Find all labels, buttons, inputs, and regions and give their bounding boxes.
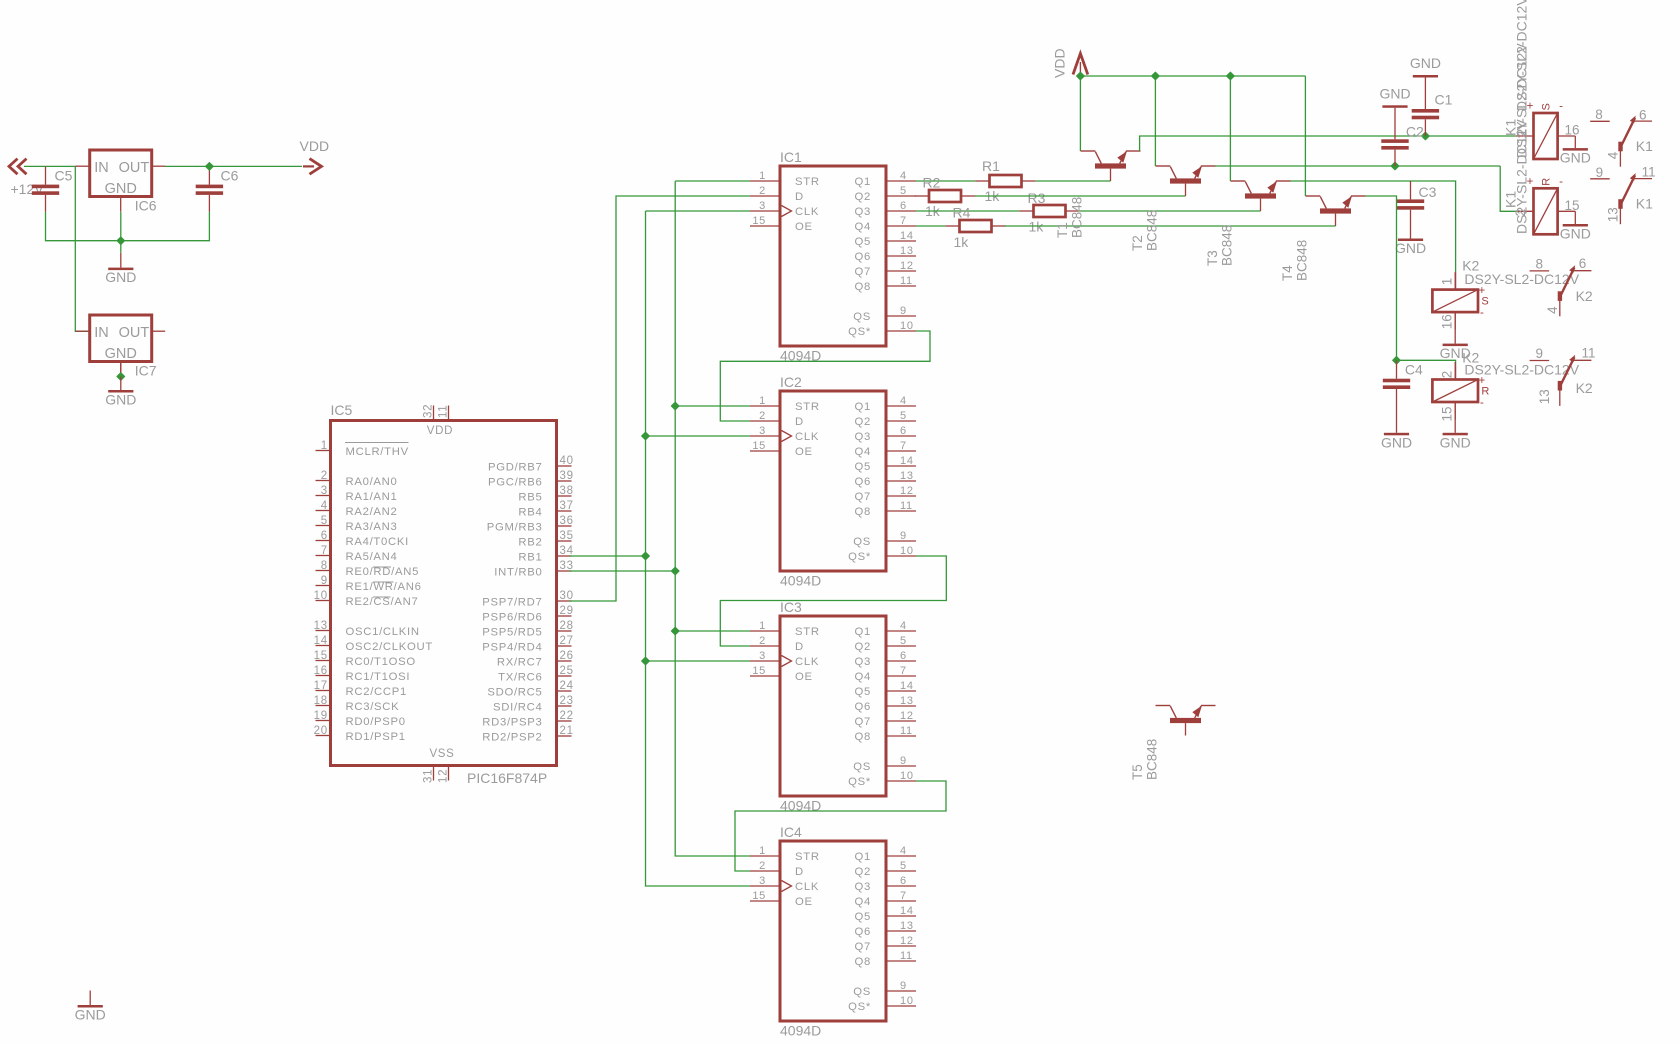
svg-text:R: R [1481,386,1489,398]
svg-text:7: 7 [321,545,328,557]
svg-text:9: 9 [900,980,907,992]
svg-text:OE: OE [795,221,813,233]
IC7 GND pin lead [120,362,122,377]
capacitor C5 [32,166,59,211]
svg-text:S: S [1481,296,1488,308]
svg-text:14: 14 [900,455,914,467]
svg-text:9: 9 [321,575,328,587]
svg-text:Q3: Q3 [855,206,871,218]
svg-text:6: 6 [321,530,328,542]
junction ground rail [117,237,125,245]
svg-text:11: 11 [437,405,449,418]
relay contact K2 (pins 9/11/13) [1530,355,1592,406]
svg-text:3: 3 [759,425,766,437]
svg-text:7: 7 [900,440,907,452]
svg-text:3: 3 [321,485,328,497]
svg-text:STR: STR [795,176,820,188]
wire K1 set pin16 to gnd [1574,136,1576,148]
wire R2 to T2 base [975,195,1186,197]
svg-text:R3: R3 [1028,190,1046,206]
svg-text:K2: K2 [1576,380,1593,396]
svg-text:PSP7/RD7: PSP7/RD7 [482,597,542,609]
junction VDD T3 [1227,72,1235,80]
ground GND below IC6 [105,253,136,285]
wire T3 emitter to K2 set coil [1290,181,1455,272]
wire VDD to T3 collector [1229,76,1231,181]
svg-text:15: 15 [1565,198,1580,213]
svg-text:19: 19 [314,710,328,722]
svg-text:QS: QS [853,311,871,323]
svg-text:-: - [1480,397,1484,409]
svg-text:9: 9 [1596,165,1604,180]
svg-text:9: 9 [900,305,907,317]
wire net D (IC5 pin30 to IC1 D) [570,196,751,601]
svg-text:Q6: Q6 [855,701,871,713]
svg-text:GND: GND [1560,226,1591,242]
svg-text:OUT: OUT [119,325,150,341]
wire +12V input to IC6 IN [24,165,75,167]
svg-text:RC3/SCK: RC3/SCK [346,701,400,713]
svg-text:Q5: Q5 [855,461,871,473]
svg-text:10: 10 [900,770,914,782]
junction C2 tap [1391,162,1399,170]
svg-text:1: 1 [321,440,328,452]
wire +12V down to IC7 IN [75,166,89,331]
svg-text:2: 2 [759,635,766,647]
svg-text:QS*: QS* [848,551,871,563]
svg-text:18: 18 [314,695,328,707]
wire T2 emitter to K1 reset coil [1215,165,1500,167]
svg-text:IC3: IC3 [780,599,802,615]
junction VDD T1 [1077,72,1085,80]
wire K2 reset pin15 to gnd [1454,402,1456,433]
svg-text:Q8: Q8 [855,506,871,518]
svg-text:C4: C4 [1405,362,1423,378]
IC5 pin numbers [314,404,574,783]
svg-text:38: 38 [560,485,574,497]
svg-text:4: 4 [1545,306,1560,314]
svg-text:SDI/RC4: SDI/RC4 [493,702,542,714]
IC IC1 4094D shift register [750,166,916,346]
wire IC6 OUT to VDD [165,165,302,167]
svg-text:17: 17 [314,680,328,692]
junction CLK IC3 [642,657,650,665]
svg-text:21: 21 [560,725,574,737]
svg-text:Q5: Q5 [855,236,871,248]
ground GND below IC7 [105,377,136,408]
wire IC1 QS* to IC2 D [720,331,930,421]
svg-text:11: 11 [1582,346,1596,361]
svg-text:GND: GND [1379,85,1410,101]
junction C4 tap [1393,356,1401,364]
svg-text:IN: IN [94,325,109,341]
svg-text:6: 6 [900,425,907,437]
svg-text:15: 15 [1439,406,1454,421]
wire T4 emitter to K2 reset coil [1365,196,1396,360]
svg-text:7: 7 [900,215,907,227]
svg-text:5: 5 [900,860,907,872]
wire IC1 Q4 to R4 [916,225,945,227]
voltage regulator IC7 [75,315,165,377]
svg-text:10: 10 [900,545,914,557]
svg-text:RD3/PSP3: RD3/PSP3 [482,717,542,729]
IC IC3 4094D shift register [750,616,916,796]
svg-text:GND: GND [105,346,137,362]
svg-text:Q7: Q7 [855,266,871,278]
svg-text:23: 23 [560,695,574,707]
svg-text:D: D [795,866,804,878]
svg-text:13: 13 [900,245,914,257]
wire K2 set pin16 to gnd [1454,312,1456,344]
svg-text:12: 12 [900,485,914,497]
wire VDD to T4 collector [1304,76,1306,196]
svg-text:R4: R4 [953,205,971,221]
svg-text:8: 8 [1595,107,1603,122]
svg-text:Q6: Q6 [855,476,871,488]
svg-text:OE: OE [795,671,813,683]
ground GND above C1 [1410,55,1441,78]
svg-text:R2: R2 [923,175,941,191]
svg-text:Q4: Q4 [855,896,871,908]
wire IC1 Q1 to R1 [916,180,975,182]
svg-text:GND: GND [105,269,136,285]
svg-text:C2: C2 [1406,124,1424,140]
svg-text:2: 2 [759,185,766,197]
svg-text:Q4: Q4 [855,221,871,233]
wire IC6 GND down [120,212,122,241]
svg-text:15: 15 [752,440,766,452]
svg-text:IC5: IC5 [331,402,353,418]
svg-text:RC1/T1OSI: RC1/T1OSI [346,671,411,683]
svg-text:4: 4 [1606,151,1621,159]
svg-text:11: 11 [900,725,913,737]
svg-text:RA4/T0CKI: RA4/T0CKI [346,536,409,548]
svg-text:Q6: Q6 [855,926,871,938]
resistor R4 [945,220,1006,232]
svg-text:Q3: Q3 [855,431,871,443]
svg-text:DS2Y-SL2-DC12V: DS2Y-SL2-DC12V [1464,271,1579,287]
relay contact K1 (pins 8/6/4) [1590,116,1652,167]
svg-text:RA3/AN3: RA3/AN3 [346,521,398,533]
svg-text:13: 13 [900,695,914,707]
svg-text:37: 37 [560,500,574,512]
svg-text:15: 15 [752,890,766,902]
svg-text:K1: K1 [1636,138,1653,154]
svg-text:Q6: Q6 [855,251,871,263]
ground GND at K1 reset [1560,224,1591,242]
svg-text:31: 31 [422,769,434,783]
svg-text:28: 28 [560,620,574,632]
svg-text:Q7: Q7 [855,491,871,503]
svg-text:14: 14 [900,230,914,242]
ground GND below C3 [1395,239,1426,257]
svg-text:C1: C1 [1435,92,1453,108]
svg-text:QS: QS [853,986,871,998]
svg-text:4: 4 [900,170,907,182]
svg-text:RC0/T1OSO: RC0/T1OSO [346,656,416,668]
svg-text:RA2/AN2: RA2/AN2 [346,506,398,518]
svg-text:Q2: Q2 [855,191,871,203]
svg-text:Q8: Q8 [855,956,871,968]
svg-text:Q1: Q1 [855,851,871,863]
svg-text:5: 5 [900,635,907,647]
capacitor C6 [196,166,223,211]
svg-text:15: 15 [314,650,328,662]
junction IC7 gnd [117,373,125,381]
power input arrow +12V (double chevron) [9,159,27,175]
svg-text:RA1/AN1: RA1/AN1 [346,491,398,503]
svg-text:Q1: Q1 [855,626,871,638]
label T3 BC848 [1205,225,1235,266]
svg-text:14: 14 [900,905,914,917]
svg-text:OSC1/CLKIN: OSC1/CLKIN [346,626,420,638]
junction CLK IC2 [642,432,650,440]
svg-text:STR: STR [795,401,820,413]
svg-text:36: 36 [560,515,574,527]
svg-text:VDD: VDD [300,138,330,154]
svg-text:24: 24 [560,680,574,692]
svg-text:PSP5/RD5: PSP5/RD5 [482,627,542,639]
svg-text:40: 40 [560,455,574,467]
svg-text:Q5: Q5 [855,911,871,923]
svg-text:10: 10 [314,590,328,602]
svg-text:T5: T5 [1130,764,1145,780]
svg-text:R: R [1541,178,1553,186]
svg-text:13: 13 [900,470,914,482]
wire T1 emitter to K1 set coil [1140,136,1516,151]
svg-text:13: 13 [314,620,328,632]
svg-text:6: 6 [900,650,907,662]
svg-text:Q2: Q2 [855,641,871,653]
svg-text:IN: IN [94,160,109,176]
svg-text:RC2/CCP1: RC2/CCP1 [346,686,407,698]
svg-text:PGD/RB7: PGD/RB7 [488,462,543,474]
svg-text:15: 15 [752,665,766,677]
svg-text:Q2: Q2 [855,416,871,428]
label T5 BC848 [1130,739,1160,780]
capacitor C1 [1412,78,1439,137]
svg-text:VDD: VDD [427,425,453,437]
svg-text:GND: GND [105,181,137,197]
svg-text:VSS: VSS [429,748,454,760]
svg-text:1k: 1k [954,234,970,250]
svg-text:29: 29 [560,605,574,617]
transistor T4 BC848 [1306,196,1366,226]
svg-text:10: 10 [900,995,914,1007]
svg-text:6: 6 [900,875,907,887]
junction STR pin33 tap [671,567,679,575]
label T4 BC848 [1280,240,1310,281]
svg-text:11: 11 [1642,165,1656,180]
svg-text:D: D [795,641,804,653]
svg-text:T2: T2 [1130,235,1145,251]
svg-text:8: 8 [321,560,328,572]
svg-text:BC848: BC848 [1145,210,1160,251]
svg-text:9: 9 [900,755,907,767]
svg-text:Q3: Q3 [855,881,871,893]
svg-text:PGC/RB6: PGC/RB6 [488,477,543,489]
svg-text:-: - [1480,307,1484,319]
svg-text:OE: OE [795,446,813,458]
IC5 PIC16F874P microcontroller [316,406,572,781]
svg-text:TX/RC6: TX/RC6 [498,672,542,684]
VDD arrow right [303,159,322,175]
svg-text:Q7: Q7 [855,716,871,728]
svg-text:T3: T3 [1205,250,1220,266]
svg-text:12: 12 [900,935,914,947]
svg-text:CLK: CLK [795,656,819,668]
svg-text:4094D: 4094D [780,1023,821,1039]
capacitor C4 [1383,360,1410,433]
svg-text:-: - [1559,101,1563,113]
relay contact K1 (pins 9/11/13) [1590,173,1652,224]
svg-text:GND: GND [1410,55,1441,71]
svg-text:DS2Y-SL2-DC12V: DS2Y-SL2-DC12V [1514,119,1530,234]
svg-text:16: 16 [314,665,328,677]
svg-text:RB1: RB1 [518,552,542,564]
svg-text:2: 2 [759,860,766,872]
svg-text:IC6: IC6 [135,198,157,214]
transistor T1 BC848 [1081,151,1141,181]
svg-text:OUT: OUT [119,160,150,176]
wire VDD rail [1080,75,1305,77]
label T1 BC848 [1055,197,1085,238]
svg-text:BC848: BC848 [1295,240,1310,281]
svg-text:PSP4/RD4: PSP4/RD4 [482,642,542,654]
svg-text:RE1/WR/AN6: RE1/WR/AN6 [346,581,422,593]
svg-text:OE: OE [795,896,813,908]
svg-text:Q4: Q4 [855,671,871,683]
svg-text:QS*: QS* [848,1001,871,1013]
svg-text:11: 11 [900,500,913,512]
svg-text:RB5: RB5 [518,492,542,504]
IC5 pin names [345,425,543,760]
svg-text:Q2: Q2 [855,866,871,878]
svg-text:C5: C5 [55,168,73,184]
svg-text:4: 4 [900,845,907,857]
ground GND bottom-left [75,991,106,1023]
relay contact K2 (pins 8/6/4) [1530,265,1592,316]
svg-text:RE2/CS/AN7: RE2/CS/AN7 [346,596,419,608]
relay K2 reset coil [1432,362,1489,420]
svg-text:Q8: Q8 [855,731,871,743]
svg-text:3: 3 [759,200,766,212]
svg-text:GND: GND [1381,434,1412,450]
wire net STR (IC5 pin33 to IC1-IC4 STR) [675,180,750,182]
svg-text:QS*: QS* [848,326,871,338]
ground GND at K2 reset [1440,433,1471,451]
svg-text:27: 27 [560,635,574,647]
svg-text:4094D: 4094D [780,573,821,589]
resistor R1 [975,175,1036,187]
svg-text:DS2Y-SL2-DC12V: DS2Y-SL2-DC12V [1514,0,1530,111]
capacitor C2 [1381,108,1408,166]
svg-text:26: 26 [560,650,574,662]
svg-text:GND: GND [1560,150,1591,166]
ground GND above C2 [1379,85,1410,108]
svg-text:4: 4 [900,395,907,407]
svg-text:VDD: VDD [1052,48,1068,78]
svg-text:K1: K1 [1636,195,1653,211]
wire K2 set pin1 stub [1455,272,1457,289]
svg-text:3: 3 [759,875,766,887]
svg-text:6: 6 [900,200,907,212]
svg-text:DS2Y-SL2-DC12V: DS2Y-SL2-DC12V [1464,361,1579,377]
svg-text:5: 5 [900,185,907,197]
ground GND below C4 [1381,433,1412,451]
svg-text:GND: GND [105,392,136,408]
wire R1 to T1 base [1036,180,1111,182]
transistor T3 BC848 [1231,181,1291,211]
svg-text:Q1: Q1 [855,176,871,188]
wire VDD to T2 collector [1154,76,1156,166]
wire net CLK (IC5 pin34 to IC1-IC4 CLK) [646,210,751,212]
svg-text:20: 20 [314,725,328,737]
svg-text:14: 14 [900,680,914,692]
svg-text:9: 9 [900,530,907,542]
svg-text:D: D [795,191,804,203]
wire K1 reset pin15 to gnd [1574,211,1576,224]
svg-text:C6: C6 [221,168,239,184]
svg-text:PGM/RB3: PGM/RB3 [487,522,543,534]
svg-text:4: 4 [321,500,328,512]
svg-text:Q4: Q4 [855,446,871,458]
wire IC2 QS* to IC3 D [720,556,946,646]
relay K2 set coil [1432,272,1488,330]
svg-text:GND: GND [1395,240,1426,256]
wire IC3 QS* to IC4 D [735,781,946,871]
svg-text:1: 1 [759,845,766,857]
svg-text:4: 4 [900,620,907,632]
ground GND at K1 set [1560,148,1591,166]
transistor T2 BC848 [1156,166,1216,196]
svg-text:GND: GND [75,1007,106,1023]
svg-text:2: 2 [759,410,766,422]
svg-text:15: 15 [752,215,766,227]
svg-text:8: 8 [1535,257,1543,272]
resistor R3 [1019,205,1080,217]
svg-text:32: 32 [422,404,434,418]
svg-text:QS*: QS* [848,776,871,788]
svg-text:13: 13 [1537,389,1552,404]
svg-text:Q8: Q8 [855,281,871,293]
wire C5 to ground rail [46,212,121,241]
svg-text:Q7: Q7 [855,941,871,953]
svg-text:RD0/PSP0: RD0/PSP0 [346,716,406,728]
svg-text:R1: R1 [982,158,1000,174]
svg-text:25: 25 [560,665,574,677]
svg-text:PIC16F874P: PIC16F874P [467,770,547,786]
svg-text:IC4: IC4 [780,824,802,840]
wire K2 reset pin2 stub [1455,366,1457,380]
svg-text:16: 16 [1565,123,1580,138]
ground GND at K2 set [1440,344,1471,362]
svg-text:S: S [1541,103,1553,110]
wire R4 to T4 base [1005,225,1336,227]
svg-text:RB4: RB4 [518,507,542,519]
svg-text:13: 13 [1605,207,1620,222]
svg-text:T1: T1 [1055,222,1070,238]
wire IC1 Q3 to R3 [916,210,1019,212]
svg-text:1: 1 [759,395,766,407]
svg-text:OSC2/CLKOUT: OSC2/CLKOUT [346,641,433,653]
svg-text:10: 10 [900,320,914,332]
junction CLK pin34 tap [642,552,650,560]
svg-text:QS: QS [853,536,871,548]
svg-text:1: 1 [759,170,766,182]
svg-text:5: 5 [321,515,328,527]
svg-text:16: 16 [1439,314,1454,329]
